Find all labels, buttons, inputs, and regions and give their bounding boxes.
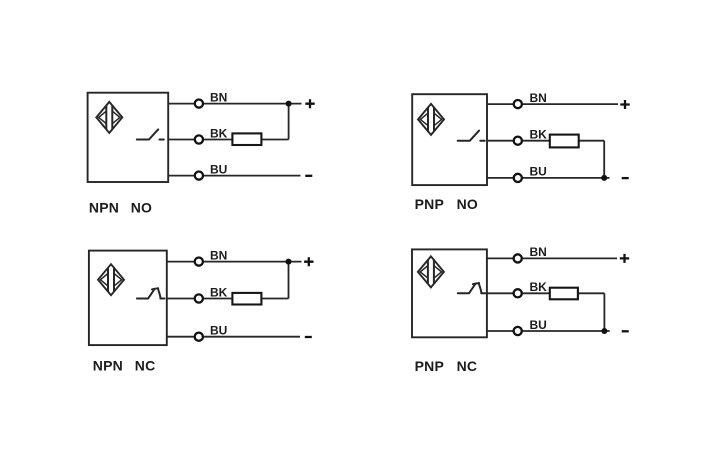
plus terminal (PNP NC) [620,254,629,263]
terminal circle BK (PNP NO) [514,137,522,145]
wire vertical link (PNP NO) [603,141,605,178]
sensor body box (NPN NO) [88,93,169,182]
plus terminal (PNP NO) [620,100,629,109]
wire vertical link (NPN NO) [288,104,290,140]
terminal circle BN (PNP NO) [514,100,522,108]
sensor body box (NPN NC) [89,251,167,346]
svg-text:BK: BK [530,128,548,142]
svg-text:PNP: PNP [415,358,444,374]
wire BU (NPN NO) [168,175,300,177]
svg-text:BN: BN [530,245,547,259]
junction dot (NPN NO) [286,101,292,107]
svg-text:BN: BN [530,91,547,105]
svg-text:BU: BU [530,165,547,179]
wire BK resistor to corner (PNP NC) [578,292,605,294]
svg-text:NC: NC [135,358,156,374]
svg-text:PNP: PNP [415,196,444,212]
terminal circle BN (NPN NC) [195,258,203,266]
load resistor (PNP NO) [550,135,579,148]
sensor symbol diamond [418,256,444,287]
sensor symbol diamond [418,104,444,135]
wire BK resistor to corner (PNP NO) [579,140,605,142]
wire BU (NPN NC) [167,336,300,338]
minus terminal (NPN NC) [305,336,312,338]
terminal circle BU (NPN NO) [195,172,203,180]
NO contact switch (PNP NO) [458,131,485,141]
svg-text:BN: BN [210,90,227,104]
junction dot (PNP NC) [601,328,607,334]
wire BK (PNP NC) [487,292,550,294]
minus terminal (NPN NO) [305,175,312,177]
wire BN (PNP NC) [487,257,617,259]
terminal circle BU (NPN NC) [195,333,203,341]
wire vertical link (PNP NC) [603,293,605,331]
NC contact switch (NPN NC) [137,288,165,298]
svg-text:NPN: NPN [89,200,119,216]
terminal circle BN (PNP NC) [514,254,522,262]
load resistor (NPN NC) [232,293,261,305]
sensor symbol diamond [96,102,122,133]
minus terminal (PNP NC) [622,330,629,332]
plus terminal (NPN NO) [305,99,314,108]
NC contact switch (PNP NC) [458,283,486,293]
wire BU (PNP NC) [487,330,610,332]
wire BU (PNP NO) [487,177,610,179]
wire BN (NPN NO) [168,103,301,105]
wire BK (PNP NO) [487,140,550,142]
wire BK resistor to corner (NPN NC) [261,298,288,300]
wire BN (PNP NO) [487,103,618,105]
terminal circle BK (NPN NC) [195,294,203,302]
svg-text:NO: NO [131,200,152,216]
svg-text:BK: BK [530,280,548,294]
svg-text:BK: BK [210,126,228,140]
sensor body box (PNP NC) [412,249,487,337]
terminal circle BU (PNP NC) [514,327,522,335]
svg-text:BU: BU [210,162,227,176]
junction dot (PNP NO) [601,175,607,181]
terminal circle BU (PNP NO) [514,174,522,182]
load resistor (NPN NO) [232,133,261,145]
minus terminal (PNP NO) [622,177,629,179]
wire BK (NPN NO) [168,139,232,141]
plus terminal (NPN NC) [304,257,313,266]
svg-text:BK: BK [210,285,228,299]
svg-text:NC: NC [457,358,478,374]
svg-text:NPN: NPN [93,358,123,374]
wire vertical link (NPN NC) [288,262,290,299]
terminal circle BK (NPN NO) [195,135,203,143]
svg-text:BN: BN [210,248,227,262]
svg-text:BU: BU [210,324,227,338]
junction dot (NPN NC) [286,259,292,265]
wire BK (NPN NC) [167,298,233,300]
sensor body box (PNP NO) [412,94,487,185]
wire BK resistor to corner (NPN NO) [261,139,288,141]
load resistor (PNP NC) [550,288,578,300]
terminal circle BK (PNP NC) [514,289,522,297]
NO contact switch (NPN NO) [137,129,164,139]
wire BN (NPN NC) [167,261,302,263]
svg-text:NO: NO [457,196,478,212]
terminal circle BN (NPN NO) [195,100,203,108]
sensor symbol diamond [98,264,124,295]
svg-text:BU: BU [530,318,547,332]
